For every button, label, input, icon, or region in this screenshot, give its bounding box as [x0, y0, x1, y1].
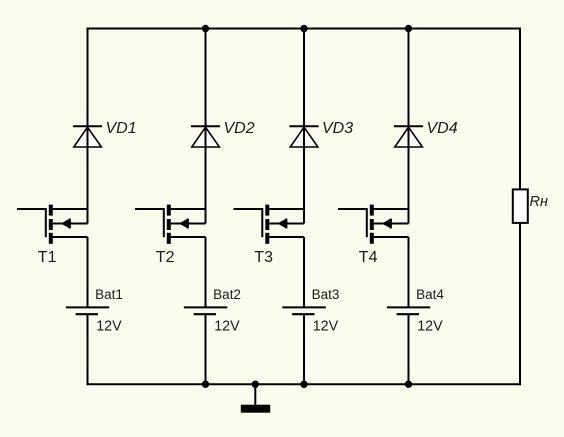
wire: right rail (load resistor to bottom rail): [519, 222, 521, 385]
T3 channel bar (bulk): [265, 219, 269, 230]
svg-text:Bat1: Bat1: [95, 287, 123, 302]
transistor T2 (MOSFET): [135, 205, 206, 244]
node: top rail junction at x=304.0: [300, 25, 307, 32]
svg-text:T3: T3: [254, 249, 273, 266]
T1 channel bar (source): [49, 233, 53, 244]
ground symbol: [241, 405, 270, 413]
svg-text:12V: 12V: [96, 318, 122, 334]
wire: T4 drain connection: [374, 208, 409, 210]
svg-text:12V: 12V: [313, 318, 339, 334]
wire: battery Bat4 to bottom rail: [408, 314, 410, 384]
svg-text:T1: T1: [38, 249, 57, 266]
wire: T1 source to battery Bat1: [87, 237, 89, 307]
wire: branch 3 top (rail to diode VD3 to transistor T3 drain): [303, 29, 305, 224]
svg-text:12V: 12V: [214, 318, 240, 334]
wire: top supply rail: [87, 28, 522, 30]
svg-text:VD1: VD1: [106, 120, 137, 137]
T4 channel bar (drain): [370, 205, 374, 216]
svg-text:Bat2: Bat2: [213, 287, 241, 302]
T3 bulk arrow: [277, 219, 285, 227]
T4 channel bar (bulk): [370, 219, 374, 230]
T2 channel bar (drain): [167, 205, 171, 216]
wire: T3 drain connection: [269, 208, 304, 210]
wire: ground stub: [254, 384, 256, 405]
wire: T4 source connection: [374, 236, 409, 238]
T4 channel bar (source): [370, 233, 374, 244]
wire: T2 bulk connection: [171, 223, 206, 225]
wire: branch 2 top (rail to diode VD2 to transistor T2 drain): [205, 29, 207, 224]
wire: T3 source connection: [269, 236, 304, 238]
wire: T2 drain connection: [171, 208, 206, 210]
wire: T4 bulk connection: [374, 223, 409, 225]
resistor RH (load): [513, 189, 528, 223]
wire: bottom ground rail: [87, 383, 522, 385]
diode VD3: [289, 126, 318, 148]
svg-text:T2: T2: [156, 249, 175, 266]
node: bottom rail junction at x=408.5: [405, 381, 412, 388]
svg-text:VD2: VD2: [224, 120, 255, 137]
wire: battery Bat2 to bottom rail: [205, 314, 207, 384]
diode VD1: [73, 126, 102, 148]
node: bottom rail junction at x=304.0: [300, 381, 307, 388]
T4 bulk arrow: [382, 219, 390, 227]
svg-text:12V: 12V: [417, 318, 443, 334]
wire: branch 1 top (rail to diode VD1 to transistor T1 drain): [87, 28, 89, 224]
wire: T2 source connection: [171, 236, 206, 238]
wire: T2 source to battery Bat2: [205, 237, 207, 307]
node: top rail junction at x=205.5: [202, 25, 209, 32]
T3 channel bar (source): [265, 233, 269, 244]
svg-text:VD4: VD4: [427, 120, 458, 137]
node: top rail junction at x=408.5: [405, 25, 412, 32]
wire: T3 gate lead: [234, 209, 263, 237]
svg-text:Rн: Rн: [530, 194, 548, 210]
wire: right rail (top rail to load resistor): [519, 28, 521, 191]
node: bottom rail junction at x=255.3: [252, 381, 259, 388]
svg-text:T4: T4: [359, 249, 378, 266]
wire: T1 drain connection: [53, 208, 88, 210]
wire: T4 gate lead: [338, 209, 367, 237]
battery Bat1: [66, 307, 109, 314]
wire: battery Bat1 to bottom rail: [87, 314, 89, 385]
T1 channel bar (drain): [49, 205, 53, 216]
transistor T3 (MOSFET): [234, 205, 305, 244]
diode VD2: [191, 126, 220, 148]
wire: battery Bat3 to bottom rail: [303, 314, 305, 384]
wire: branch 4 top (rail to diode VD4 to transistor T4 drain): [408, 29, 410, 224]
wire: T3 bulk connection: [269, 223, 304, 225]
transistor T4 (MOSFET): [338, 205, 409, 244]
wire: T2 gate lead: [135, 209, 164, 237]
T2 bulk arrow: [179, 219, 187, 227]
svg-text:VD3: VD3: [322, 120, 353, 137]
wire: T1 bulk connection: [53, 223, 88, 225]
wire: T1 source connection: [53, 236, 88, 238]
wire: T3 source to battery Bat3: [303, 237, 305, 307]
diode VD4: [394, 126, 423, 148]
transistor T1 (MOSFET): [17, 205, 88, 244]
svg-text:Bat4: Bat4: [416, 287, 444, 302]
T3 channel bar (drain): [265, 205, 269, 216]
T1 bulk arrow: [61, 219, 69, 227]
node: bottom rail junction at x=205.5: [202, 381, 209, 388]
wire: T1 gate lead: [17, 209, 46, 237]
battery Bat4: [387, 307, 430, 314]
T2 channel bar (source): [167, 233, 171, 244]
T2 channel bar (bulk): [167, 219, 171, 230]
T1 channel bar (bulk): [49, 219, 53, 230]
svg-text:Bat3: Bat3: [312, 287, 340, 302]
wire: T4 source to battery Bat4: [408, 237, 410, 307]
battery Bat2: [184, 307, 227, 314]
battery Bat3: [282, 307, 325, 314]
